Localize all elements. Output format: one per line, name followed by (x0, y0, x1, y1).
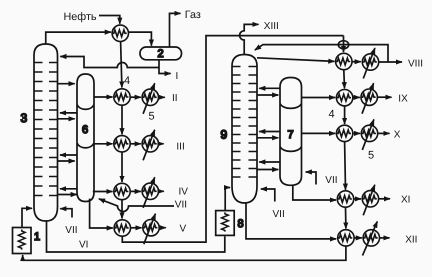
wire stripper 7 to exchanger row IX (302, 97, 336, 99)
wire draw 2 column 9 to stripper 7 (257, 137, 278, 139)
wire chain XI to XII (345, 207, 347, 228)
wire steam VII into column 3 bottom (60, 209, 72, 218)
wire crude feed (Нефть) into exchanger F (99, 16, 120, 24)
wire cooler III to product III (159, 143, 164, 145)
svg-text:4: 4 (329, 109, 335, 121)
svg-text:VII: VII (175, 199, 187, 210)
exchanger 4 row III (114, 136, 130, 152)
cooler 5 row IX (361, 89, 377, 105)
wire manifold down into exchanger VIII with hop (343, 36, 345, 52)
wire reflux back to column 9 top (255, 45, 388, 62)
wire stripper 6 bottoms to exchanger row V (90, 199, 113, 228)
wire draw 4 column 3 to stripper 6 (58, 194, 77, 196)
wire cooler X to product X (378, 132, 390, 134)
exchanger F (crude feed preheater) (112, 25, 128, 41)
wire stripper 6 to exchanger row IV (93, 191, 113, 193)
wire draw 1 column 3 to stripper 6 (58, 83, 75, 85)
svg-text:3: 3 (21, 111, 28, 125)
wire chain VIII to IX (343, 70, 346, 89)
wire crude chain III to IV (121, 152, 123, 182)
wire crude chain V to right-half manifold (122, 36, 343, 243)
wire cooler XII to product XII (380, 237, 390, 239)
wire column 9 overhead vapour to exchanger VIII (257, 58, 334, 62)
svg-text:IV: IV (179, 186, 189, 197)
column 9 (main column K-2) shell (232, 55, 257, 204)
svg-text:VII: VII (65, 225, 77, 236)
svg-text:5: 5 (149, 111, 155, 123)
wire draw 1 column 9 to stripper 7 (257, 94, 278, 96)
svg-text:5: 5 (368, 150, 374, 162)
wire crude chain II to III (121, 105, 123, 134)
wire cooler V to product V (159, 227, 166, 229)
wire stripper 7 bottoms to exchanger row XI (293, 185, 336, 200)
cooler 5 row X (361, 125, 377, 141)
exchanger 4 row X (336, 125, 352, 141)
wire reflux from drum 2 to column 3 with hop over crude line (60, 57, 159, 68)
wire hot crude return line into furnace 1 (23, 246, 346, 260)
cooler III regulating arrow (143, 130, 155, 161)
wire column 3 overhead to exchanger F (46, 32, 111, 44)
wire chain IX to X (344, 106, 346, 124)
wire column 9 overhead to XIII with hop over manifold (240, 24, 259, 54)
svg-text:6: 6 (82, 124, 88, 136)
cooler IX regulating arrow (362, 83, 374, 114)
wire steam VII into stripper 6 with hop (99, 199, 174, 212)
wire steam VII into column 9 bottom (261, 189, 275, 202)
capsule 7 (side stripper block) shell (280, 78, 302, 186)
svg-text:Нефть: Нефть (64, 11, 97, 23)
wire drum 2 bottoms to product I (159, 60, 171, 74)
drum 2 (reflux drum) (140, 47, 182, 60)
wire exchanger XII to cooler XII (354, 237, 362, 239)
furnace 8 (216, 211, 235, 236)
svg-text:VII: VII (273, 209, 285, 220)
cooler II regulating arrow (143, 83, 155, 114)
svg-text:II: II (172, 93, 178, 104)
cooler V regulating arrow (144, 214, 156, 245)
wire stripper 7 to exchanger row X (302, 132, 336, 134)
wire exchanger F to drum 2 (129, 32, 152, 46)
cooler 5 row III (142, 136, 158, 152)
wire vapour return 3 stripper 6 to column 3 (60, 154, 77, 156)
svg-text:XIII: XIII (264, 21, 279, 32)
svg-text:4: 4 (124, 75, 130, 87)
svg-text:VIII: VIII (408, 58, 423, 69)
svg-text:V: V (180, 224, 187, 235)
wire exchanger IV to cooler IV (130, 190, 141, 192)
column 3 trays (34, 63, 58, 196)
wire column 9 bottoms to exchanger row XII (246, 202, 336, 239)
wire exchanger II to cooler II (130, 96, 141, 98)
cooler XI regulating arrow (363, 185, 375, 216)
wire chain X to XI (344, 142, 347, 190)
hop ellipse at crossing (338, 41, 348, 49)
wire vapour return 2 stripper 7 to column 9 (259, 131, 280, 133)
svg-text:9: 9 (221, 128, 228, 142)
exchanger 4 row XII (338, 230, 354, 246)
wire exchanger VIII to cooler VIII (352, 61, 361, 63)
wire cooler IX to product IX (377, 96, 391, 98)
svg-text:1: 1 (34, 231, 40, 243)
wire stripper 6 to exchanger row II (94, 96, 113, 98)
wire gas out of drum 2 (170, 13, 181, 47)
svg-text:XII: XII (405, 234, 417, 245)
exchanger 4 row V (114, 220, 130, 236)
cooler X regulating arrow (362, 119, 374, 149)
svg-text:X: X (394, 130, 401, 141)
wire furnace 8 outlet to column 9 (225, 188, 230, 211)
wire exchanger XI to cooler XI (354, 198, 361, 200)
wire furnace 1 outlet to column 3 (22, 208, 32, 227)
svg-text:IX: IX (398, 94, 408, 105)
wire exchanger X to cooler X (353, 132, 360, 134)
svg-text:2: 2 (158, 48, 164, 60)
svg-text:Газ: Газ (185, 9, 201, 21)
wire crude chain IV to V (121, 200, 123, 219)
svg-text:7: 7 (288, 129, 294, 141)
cooler 5 row VIII (362, 54, 378, 70)
svg-text:VI: VI (79, 239, 88, 250)
wire cooler VIII to product VIII with reflux branch (379, 61, 402, 63)
capsule 6 (side stripper block) shell (77, 74, 94, 202)
wire crude chain F to II (121, 42, 122, 88)
furnace 1 (13, 228, 32, 254)
svg-text:8: 8 (238, 218, 244, 230)
wire cooler II to product II (159, 96, 165, 98)
wire column 3 bottoms to furnace 8 (47, 221, 225, 252)
exchanger 4 row IV (114, 183, 130, 199)
cooler 5 row II (142, 89, 158, 105)
wire stripper 6 to exchanger row III (94, 143, 113, 145)
wire steam VII into stripper 7 bottom (306, 172, 316, 185)
svg-text:III: III (176, 141, 184, 152)
wire exchanger IX to cooler IX (353, 96, 360, 98)
cooler VIII regulating arrow (363, 48, 375, 79)
exchanger 4 row VIII (336, 53, 352, 69)
cooler 5 row XI (362, 191, 378, 207)
wire vapour return 1 stripper 7 to column 9 (259, 87, 280, 89)
wire vapour return 2 stripper 6 to column 3 (60, 112, 77, 114)
exchanger 4 row II (114, 89, 130, 105)
wire cooler IV to product IV (159, 190, 164, 192)
wire exchanger III to cooler III (130, 143, 141, 145)
cooler IV regulating arrow (143, 177, 155, 208)
wire draw 3 column 3 to stripper 6 (58, 160, 75, 162)
column 9 trays (232, 67, 257, 178)
cooler XII regulating arrow (363, 222, 378, 256)
wire vapour return 3 stripper 7 to column 9 (259, 161, 280, 163)
exchanger 4 row IX (336, 90, 352, 106)
wire vapour return 4 stripper 6 to column 3 (60, 188, 78, 190)
svg-text:XI: XI (401, 194, 410, 205)
cooler 5 row XII (363, 230, 379, 246)
cooler 5 row IV (142, 183, 158, 199)
wire draw 2 column 3 to stripper 6 (58, 118, 75, 120)
wire exchanger V to cooler V (131, 227, 142, 229)
wire draw 3 column 9 to stripper 7 (257, 169, 278, 171)
column 3 (topping column K-1) shell (34, 44, 58, 221)
svg-text:I: I (176, 71, 179, 82)
svg-text:VII: VII (325, 175, 337, 186)
cooler 5 row V (143, 220, 159, 236)
wire cooler XI to product XI (379, 198, 390, 200)
exchanger 4 row XI (337, 191, 353, 207)
